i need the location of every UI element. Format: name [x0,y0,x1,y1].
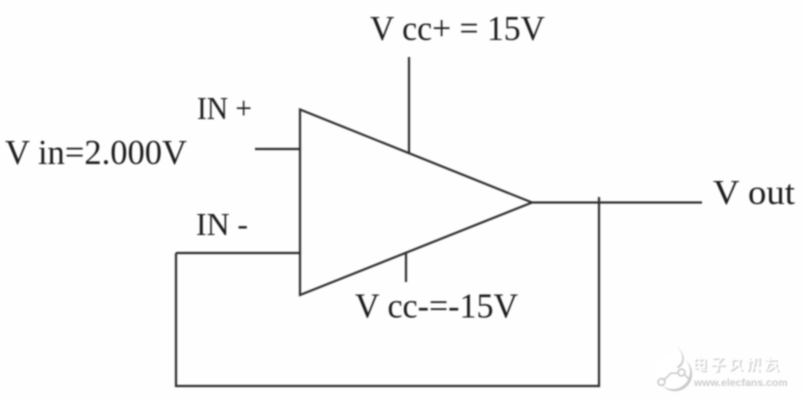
svg-text:V cc-=-15V: V cc-=-15V [355,287,518,326]
svg-text:V out: V out [713,173,795,212]
svg-text:www.elecfans.com: www.elecfans.com [693,377,788,389]
svg-text:IN -: IN - [196,206,248,242]
svg-text:IN +: IN + [197,90,252,126]
svg-text:V in=2.000V: V in=2.000V [5,133,187,172]
svg-text:V cc+ = 15V: V cc+ = 15V [370,9,545,48]
